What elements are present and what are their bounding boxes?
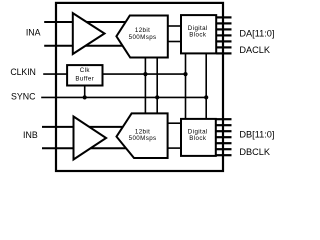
svg-text:DACLK: DACLK [239, 45, 271, 55]
digital block A [181, 15, 216, 53]
wire ADC A to digital A (lower) [168, 41, 181, 43]
wire INA+ [44, 21, 126, 23]
svg-text:Block: Block [189, 135, 207, 142]
svg-text:Clk: Clk [80, 67, 91, 74]
ADC B (12bit 500Msps) [117, 113, 168, 158]
wire clock bus (buffer output) [103, 73, 186, 75]
outer box [56, 3, 223, 171]
wire ADC B to digital B (lower) [168, 147, 181, 149]
svg-text:DB[11:0]: DB[11:0] [239, 130, 274, 140]
pins DACLK [216, 47, 231, 53]
svg-text:DBCLK: DBCLK [239, 147, 271, 157]
wire buffer to SYNC [84, 86, 86, 98]
op-amp A [73, 13, 105, 54]
junction dot sync digital link [204, 95, 208, 99]
svg-text:SYNC: SYNC [11, 92, 36, 102]
svg-text:500Msps: 500Msps [129, 34, 157, 41]
svg-text:DA[11:0]: DA[11:0] [239, 28, 274, 38]
ADC A (12bit 500Msps) [116, 16, 167, 58]
svg-text:Buffer: Buffer [75, 76, 94, 83]
svg-text:500Msps: 500Msps [129, 135, 157, 142]
pins DA bus [216, 17, 231, 41]
svg-text:INB: INB [23, 130, 38, 140]
wire ADC A to digital A (upper) [168, 25, 181, 27]
wire INB- [42, 147, 126, 149]
wire SYNC [41, 96, 206, 98]
wire INB+ [42, 126, 126, 128]
wire sync vertical between ADCs [156, 58, 158, 114]
wire clock vertical between ADCs [144, 58, 146, 114]
junction dot sync adc vertical [155, 95, 159, 99]
wire INA- [44, 45, 126, 47]
wire digital link 1 [185, 53, 187, 119]
op-amp B [74, 117, 107, 160]
svg-text:INA: INA [26, 28, 41, 38]
svg-text:CLKIN: CLKIN [10, 67, 35, 77]
wire CLKIN [43, 73, 67, 75]
junction dot clkbuf-sync [83, 95, 87, 99]
junction dot clk digital link [183, 72, 187, 76]
svg-text:Block: Block [189, 31, 207, 38]
clk buffer U3 [67, 65, 102, 85]
digital block B [181, 119, 216, 156]
junction dot clk bus [143, 72, 147, 76]
pins DB bus [216, 119, 232, 143]
wire ADC B to digital B (upper) [168, 122, 181, 124]
pins DBCLK [216, 149, 232, 155]
wire digital link 2 [205, 53, 207, 119]
